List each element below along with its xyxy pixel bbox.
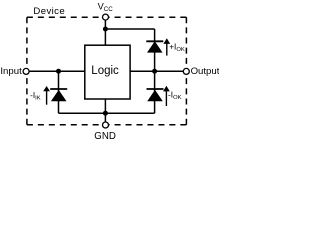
svg-text:+IOK: +IOK — [169, 41, 185, 53]
arrow +IOK shaft — [166, 44, 168, 56]
diode D3 GND to output triangle — [147, 90, 163, 101]
arrow -IIK shaft — [46, 91, 48, 105]
junction dot input — [56, 69, 61, 74]
terminal circle Output — [183, 68, 189, 74]
arrow -IIK head — [43, 86, 50, 91]
svg-text:Device: Device — [33, 6, 65, 17]
diode D3 GND to output cathode bar — [147, 88, 164, 90]
terminal circle Input — [23, 68, 29, 74]
svg-text:VCC: VCC — [98, 2, 114, 14]
junction dot output — [152, 69, 157, 74]
wire GND stub vertical — [104, 99, 106, 122]
junction dot Vcc rail — [103, 27, 108, 32]
wire right column vertical — [154, 29, 156, 113]
wire Vcc rail horizontal — [105, 28, 154, 30]
diode D1 input clamp triangle — [51, 90, 67, 101]
arrow +IOK head — [163, 38, 170, 44]
svg-text:GND: GND — [94, 131, 116, 140]
svg-text:-IIK: -IIK — [30, 90, 41, 102]
svg-text:Output: Output — [191, 66, 219, 77]
wire input horizontal — [29, 70, 85, 72]
wire Vcc stub vertical — [104, 20, 106, 45]
diode D2 output to Vcc triangle — [147, 41, 163, 52]
terminal circle Vcc — [103, 14, 109, 20]
diode D1 input clamp cathode bar — [50, 88, 67, 90]
logic box U1 — [85, 45, 130, 99]
wire output horizontal — [130, 70, 183, 72]
svg-text:-IOK: -IOK — [168, 90, 182, 102]
wire input diode column vertical — [58, 71, 60, 113]
diode D2 output to Vcc cathode bar — [146, 40, 163, 42]
svg-text:Input: Input — [0, 66, 22, 77]
arrow -IOK head — [163, 86, 170, 92]
device outline dashed box — [27, 17, 187, 125]
junction dot GND rail — [103, 111, 108, 116]
wire GND rail horizontal — [59, 112, 155, 114]
svg-text:Logic: Logic — [91, 65, 119, 77]
terminal circle GND — [103, 122, 109, 128]
arrow -IOK shaft — [165, 91, 167, 106]
